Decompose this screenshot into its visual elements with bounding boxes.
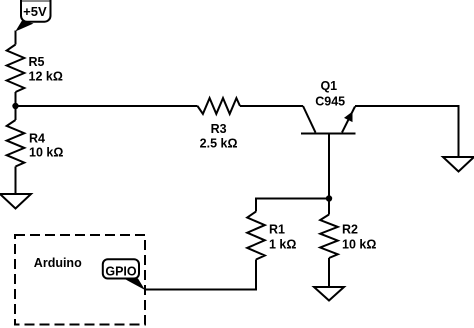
label R3 value 2.5 kΩ (200, 122, 238, 151)
label Arduino (34, 256, 82, 270)
svg-text:R3: R3 (211, 122, 227, 136)
svg-text:Arduino: Arduino (34, 256, 82, 270)
wire node A to R4 (15, 106, 17, 120)
node B junction dot (base / R1 / R2) (326, 195, 332, 201)
wire node B to R2 (328, 199, 330, 215)
transistor Q1 C945 (NPN) (301, 106, 356, 134)
node A junction dot (12, 103, 18, 109)
resistor R5 (7, 45, 25, 93)
power flag +5V (15, 0, 50, 32)
wire R5 to node A (15, 92, 17, 106)
svg-text:C945: C945 (315, 95, 345, 109)
wire R1 to GPIO (145, 260, 256, 290)
Arduino module dashed box (15, 235, 145, 325)
label R2 value 10 kΩ (342, 223, 376, 252)
resistor R2 (320, 215, 338, 259)
wire Q1 emitter to right ground (355, 106, 459, 157)
svg-text:10 kΩ: 10 kΩ (29, 146, 63, 160)
svg-text:12 kΩ: 12 kΩ (29, 69, 63, 83)
label Q1 C945 (315, 79, 345, 109)
svg-text:R5: R5 (29, 55, 45, 69)
resistor R4 (7, 120, 25, 167)
svg-text:R4: R4 (29, 131, 45, 145)
svg-text:+5V: +5V (23, 4, 47, 19)
svg-text:Q1: Q1 (320, 79, 337, 93)
label R5 value 12 kΩ (29, 55, 63, 83)
resistor R3 (198, 98, 241, 114)
ground (left, below R4) (0, 194, 31, 209)
svg-text:10 kΩ: 10 kΩ (342, 237, 376, 251)
svg-text:R1: R1 (269, 223, 285, 237)
net label GPIO (103, 259, 145, 290)
ground (right, emitter) (443, 157, 474, 172)
label R4 value 10 kΩ (29, 131, 63, 159)
svg-text:2.5 kΩ: 2.5 kΩ (200, 137, 238, 151)
wire R4 to ground (15, 167, 17, 195)
ground (below R2) (314, 287, 344, 301)
svg-text:1 kΩ: 1 kΩ (269, 237, 296, 251)
wire R3 to Q1 collector (240, 105, 303, 107)
wire R2 to ground (328, 258, 330, 287)
svg-text:GPIO: GPIO (105, 264, 137, 278)
resistor R1 (247, 212, 265, 260)
wire node B to R1 (256, 199, 329, 212)
wire node A to R3 (16, 105, 198, 107)
wire +5V to R5 (15, 31, 17, 45)
label R1 value 1 kΩ (269, 223, 296, 252)
wire Q1 base lead (328, 134, 330, 199)
svg-text:R2: R2 (342, 223, 358, 237)
